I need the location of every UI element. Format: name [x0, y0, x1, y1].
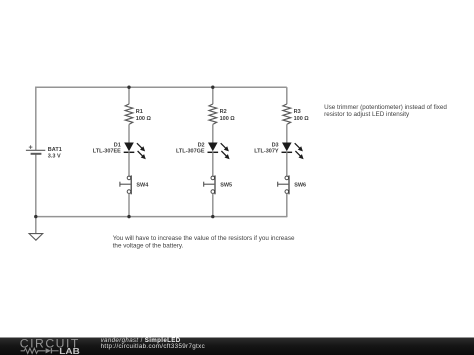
svg-text:100 Ω: 100 Ω: [294, 116, 310, 122]
logo LAB text: [59, 346, 80, 355]
logo CIRCUIT text: [20, 336, 79, 350]
wire D3-SW6: [286, 152, 288, 176]
svg-text:resistor to adjust LED intensi: resistor to adjust LED intensity: [324, 111, 410, 118]
label BAT1 3.3 V: [48, 147, 62, 159]
wire bottom rail: [36, 216, 287, 218]
battery BAT1: [26, 145, 45, 154]
label R1 100 ohm: [136, 109, 152, 122]
svg-text:the voltage of the battery.: the voltage of the battery.: [113, 242, 184, 249]
resistor R2: [209, 104, 217, 124]
wire R2 top: [212, 87, 214, 104]
svg-text:R1: R1: [136, 109, 143, 115]
resistor R1: [125, 104, 133, 124]
footer bar: [0, 338, 474, 355]
ground: [29, 234, 43, 241]
annotation trimmer note: [324, 104, 447, 118]
annotation resistor-value note: [113, 235, 295, 249]
wire R2-D2: [212, 124, 214, 142]
node junction bottom branch1: [127, 215, 130, 218]
switch SW4: [120, 175, 131, 194]
svg-text:SW5: SW5: [220, 183, 232, 189]
footer url: [101, 343, 205, 350]
svg-text:LTL-307Y: LTL-307Y: [254, 149, 279, 155]
svg-text:BAT1: BAT1: [48, 147, 62, 153]
switch SW5: [204, 175, 215, 194]
svg-text:100 Ω: 100 Ω: [220, 116, 236, 122]
svg-text:SW4: SW4: [136, 183, 149, 189]
logo resistor zigzag: [21, 348, 46, 353]
label R2 100 ohm: [220, 109, 236, 122]
svg-text:D1: D1: [114, 142, 121, 148]
label SW4: [136, 183, 149, 189]
wire SW5 bottom: [212, 194, 214, 217]
resistor R3: [283, 104, 291, 124]
wire R1-D1: [128, 124, 130, 142]
switch SW6: [278, 175, 289, 194]
LED D2: [208, 143, 230, 160]
svg-text:SW6: SW6: [294, 183, 306, 189]
wire battery bottom lead: [35, 154, 37, 217]
svg-text:LTL-307GE: LTL-307GE: [176, 149, 205, 155]
wire battery top lead: [35, 87, 37, 151]
wire top rail: [36, 86, 287, 88]
label SW6: [294, 183, 306, 189]
node junction bottom ground: [34, 215, 37, 218]
wire R1 top: [128, 87, 130, 104]
wire ground lead: [35, 217, 37, 234]
label D1 LTL-307EE: [93, 142, 121, 154]
svg-text:100 Ω: 100 Ω: [136, 116, 152, 122]
footer title vanderghast / SimpleLED: [101, 337, 181, 344]
label R3 100 ohm: [294, 109, 310, 122]
LED D1: [124, 143, 146, 160]
svg-text:LTL-307EE: LTL-307EE: [93, 149, 121, 155]
wire R3 top: [286, 87, 288, 104]
svg-text:R3: R3: [294, 109, 301, 115]
svg-text:D2: D2: [198, 142, 205, 148]
svg-text:You will have to increase the: You will have to increase the value of t…: [113, 235, 295, 242]
wire R3-D3: [286, 124, 288, 142]
svg-text:3.3 V: 3.3 V: [48, 153, 61, 159]
svg-text:http://circuitlab.com/cft3359r: http://circuitlab.com/cft3359r7gtxc: [101, 343, 205, 350]
wire SW4 bottom: [128, 194, 130, 217]
svg-text:R2: R2: [220, 109, 227, 115]
label D3 LTL-307Y: [254, 142, 279, 154]
LED D3: [282, 143, 304, 160]
label D2 LTL-307GE: [176, 142, 205, 154]
svg-text:LAB: LAB: [59, 346, 80, 355]
node junction top branch1: [127, 86, 130, 89]
wire D2-SW5: [212, 152, 214, 176]
svg-text:Use trimmer (potentiometer) in: Use trimmer (potentiometer) instead of f…: [324, 104, 447, 111]
wire SW6 bottom: [286, 194, 288, 218]
svg-text:D3: D3: [272, 142, 279, 148]
logo diode: [46, 348, 59, 353]
node junction bottom branch2: [211, 215, 214, 218]
wire D1-SW4: [128, 152, 130, 176]
node junction top branch2: [211, 86, 214, 89]
label SW5: [220, 183, 232, 189]
